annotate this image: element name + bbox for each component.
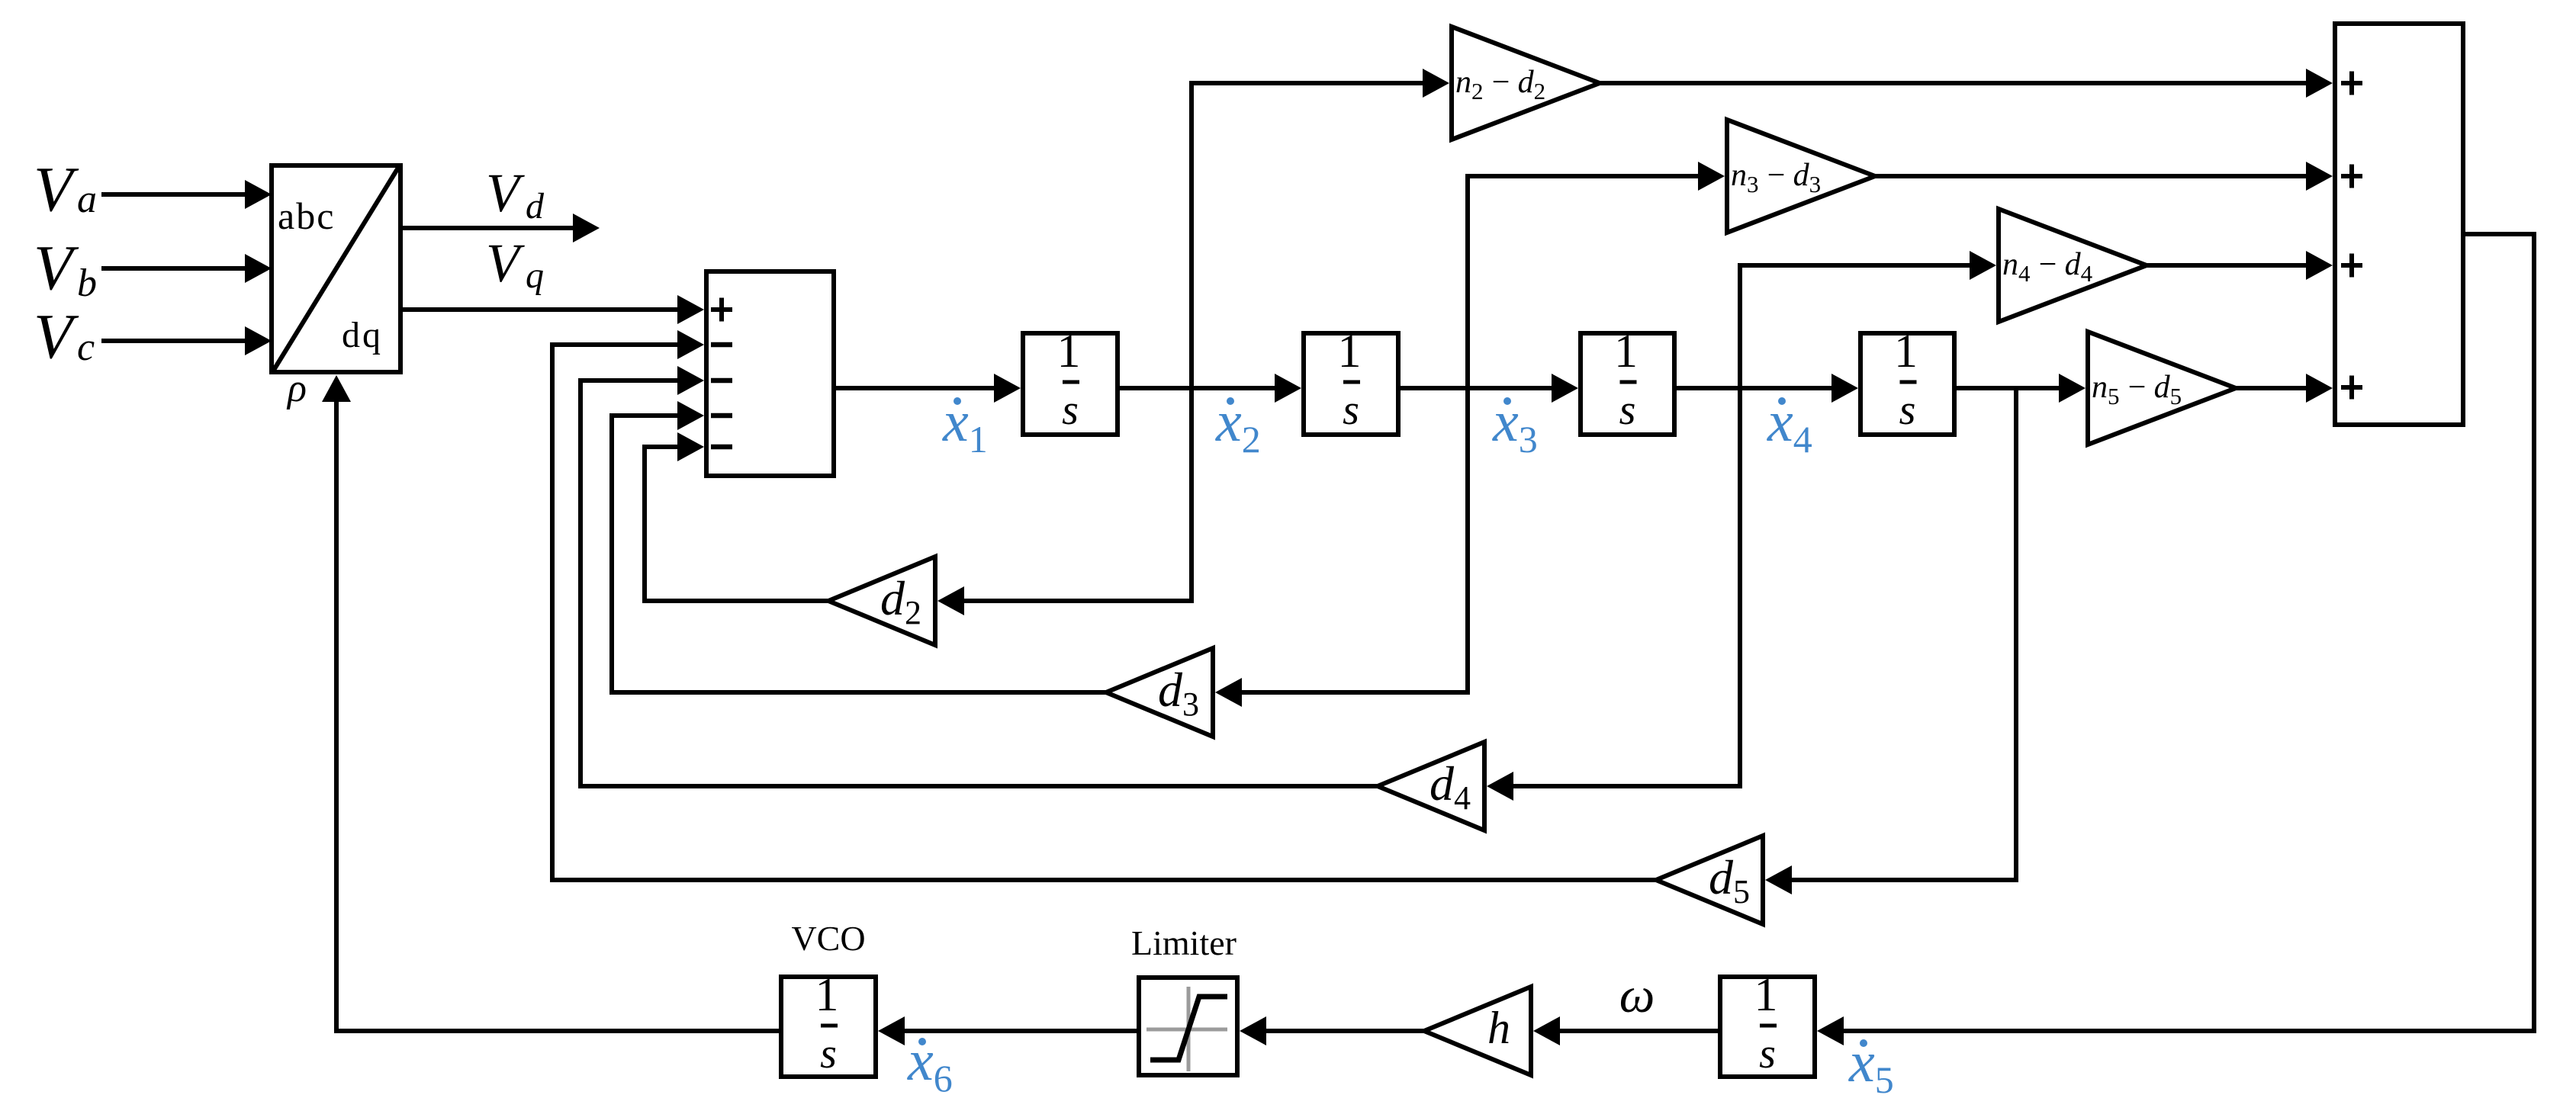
svg-text:s: s <box>820 1030 837 1077</box>
svg-text:1: 1 <box>1614 326 1638 377</box>
integrator block 1/s #1 <box>1023 326 1118 435</box>
abc-dq transformation block U1 <box>272 165 400 372</box>
label Limiter <box>1131 923 1237 962</box>
svg-text:x2: x2 <box>1215 390 1261 461</box>
svg-text:Limiter: Limiter <box>1131 923 1237 962</box>
svg-text:s: s <box>1899 387 1916 434</box>
wire d4 return to summer <box>580 366 1378 786</box>
wire d5 return to summer <box>552 330 1657 880</box>
integrator block 1/s #5 <box>1720 969 1815 1077</box>
svg-text:s: s <box>1619 387 1636 434</box>
wire n2-d2 to summer 2 <box>1600 69 2333 98</box>
wire Vd output <box>403 214 600 242</box>
wire Va input <box>101 180 272 209</box>
gain n5-d5 <box>2088 332 2236 445</box>
svg-text:V: V <box>34 301 79 372</box>
label Vc <box>34 301 95 372</box>
wire x4 branch to n4-d4 and d4 <box>1487 251 1996 801</box>
svg-text:h: h <box>1487 1003 1510 1053</box>
wire x5 branch to d5 <box>1765 388 2016 894</box>
svg-text:VCO: VCO <box>791 919 865 958</box>
svg-text:V: V <box>486 233 525 294</box>
svg-text:abc: abc <box>278 194 335 237</box>
wire summer to integrator 1 <box>836 374 1021 403</box>
summer S1 sign -3 <box>711 413 732 419</box>
summer S1 sign -2 <box>711 378 732 384</box>
label Vq <box>486 233 544 296</box>
svg-text:V: V <box>34 154 79 225</box>
label rho <box>286 367 307 410</box>
wire n4-d4 to summer 2 <box>2147 251 2333 280</box>
wire integrator 5 to gain h <box>1533 1016 1718 1045</box>
svg-text:d5: d5 <box>1709 850 1750 910</box>
summer S1 block <box>706 271 834 476</box>
gain n4-d4 <box>1999 209 2147 322</box>
label x4dot <box>1767 390 1812 461</box>
label omega <box>1619 968 1655 1023</box>
integrator block 1/s #4 <box>1860 326 1954 435</box>
limiter block saturation <box>1139 978 1237 1075</box>
svg-text:ρ: ρ <box>286 367 307 410</box>
wire Vc input <box>101 326 272 355</box>
label x1dot <box>942 390 988 461</box>
label Va <box>34 154 97 225</box>
wire d2 return to summer <box>645 432 828 601</box>
gain n2-d2 <box>1452 27 1600 140</box>
label x2dot <box>1215 390 1261 461</box>
svg-text:n5 − d5: n5 − d5 <box>2092 370 2182 409</box>
wire Vb input <box>101 254 272 283</box>
svg-text:1: 1 <box>1057 326 1081 377</box>
label x5dot <box>1848 1030 1894 1101</box>
wire d3 return to summer <box>612 401 1106 692</box>
svg-text:a: a <box>77 178 97 221</box>
wire x2 (int1 to int2) <box>1120 374 1301 403</box>
svg-text:1: 1 <box>1754 969 1778 1021</box>
wire x3 (int2 to int3) <box>1401 374 1578 403</box>
svg-text:1: 1 <box>1894 326 1918 377</box>
VCO integrator block 1/s <box>781 969 876 1077</box>
summer S2 sign +1 <box>2341 72 2362 95</box>
svg-text:s: s <box>1759 1030 1776 1077</box>
svg-text:V: V <box>34 233 79 303</box>
wire Vq to summer <box>403 295 704 324</box>
label VCO <box>791 919 865 958</box>
wire n5-d5 to summer 2 <box>2236 374 2333 403</box>
svg-text:n2 − d2: n2 − d2 <box>1455 65 1545 104</box>
summer S1 sign -4 <box>711 445 732 450</box>
wire n3-d3 to summer 2 <box>1875 162 2333 191</box>
svg-text:d: d <box>526 186 545 226</box>
summer S2 sign +2 <box>2341 165 2362 188</box>
summer S2 block <box>2335 24 2463 425</box>
summer S1 sign + <box>711 298 732 322</box>
svg-text:1: 1 <box>1338 326 1362 377</box>
wire summer 2 output to integrator 5 <box>1817 234 2534 1045</box>
wire limiter to VCO <box>878 1016 1137 1045</box>
wire x4 (int3 to int4) <box>1677 374 1858 403</box>
summer S2 sign +3 <box>2341 254 2362 278</box>
label Vb <box>34 233 97 305</box>
svg-text:x3: x3 <box>1492 390 1538 461</box>
svg-text:d2: d2 <box>880 571 921 631</box>
svg-text:x6: x6 <box>907 1029 953 1100</box>
svg-text:n3 − d3: n3 − d3 <box>1731 158 1821 197</box>
svg-text:s: s <box>1343 387 1359 434</box>
svg-text:d4: d4 <box>1430 756 1471 817</box>
svg-text:ω: ω <box>1619 968 1655 1023</box>
svg-text:x1: x1 <box>942 390 988 461</box>
wire x3 branch to n3-d3 and d3 <box>1215 162 1725 707</box>
label Vd <box>486 162 545 226</box>
gain d4 <box>1378 742 1484 830</box>
wire rho feedback <box>322 375 779 1031</box>
label x6dot <box>907 1029 953 1100</box>
integrator block 1/s #3 <box>1581 326 1674 435</box>
svg-text:n4 − d4: n4 − d4 <box>2002 247 2093 287</box>
gain n3-d3 <box>1727 120 1875 233</box>
gain d2 <box>828 557 935 645</box>
svg-text:d3: d3 <box>1158 663 1199 723</box>
wire gain h to limiter <box>1240 1016 1424 1045</box>
gain h <box>1424 987 1531 1075</box>
gain d5 <box>1656 836 1763 924</box>
gain d3 <box>1106 648 1213 737</box>
svg-text:x5: x5 <box>1848 1030 1894 1101</box>
integrator block 1/s #2 <box>1304 326 1398 435</box>
svg-text:x4: x4 <box>1767 390 1812 461</box>
svg-text:q: q <box>526 255 544 296</box>
label x3dot <box>1492 390 1538 461</box>
svg-text:V: V <box>486 162 525 223</box>
svg-text:1: 1 <box>815 969 839 1021</box>
summer S2 sign +4 <box>2341 376 2362 400</box>
svg-text:c: c <box>77 326 95 369</box>
wire x2 branch to n2-d2 and d2 <box>937 69 1449 615</box>
svg-text:s: s <box>1062 387 1079 434</box>
svg-text:dq: dq <box>342 315 383 355</box>
wire int4 to gain n5-d5 <box>1957 374 2086 403</box>
summer S1 sign -1 <box>711 342 732 348</box>
svg-text:b: b <box>77 262 97 305</box>
